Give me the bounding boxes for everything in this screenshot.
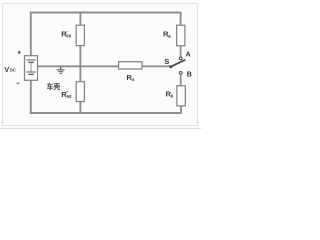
svg-text:V: V <box>4 65 9 74</box>
label R''50 <box>61 90 72 99</box>
label R'50 <box>61 30 72 39</box>
wire middle branch upper lead (top wire to R'50) <box>79 12 81 26</box>
resistor R'50 <box>76 25 84 45</box>
wire R6 bottom lead <box>180 106 182 114</box>
svg-text:50: 50 <box>66 34 71 39</box>
label R6 <box>166 89 174 98</box>
label S <box>164 57 169 66</box>
label R5 <box>163 29 171 39</box>
switch contact B <box>179 72 182 75</box>
resistor R5 <box>177 25 185 46</box>
svg-text:车壳: 车壳 <box>47 82 61 91</box>
svg-text:S: S <box>164 57 169 66</box>
label R4 <box>126 73 134 82</box>
battery VDC <box>25 56 38 81</box>
switch S pivot <box>169 65 172 68</box>
ground (chassis) <box>57 66 65 73</box>
battery minus sign <box>17 82 20 84</box>
wire middle branch lower lead (R''50 to bottom wire) <box>79 101 81 113</box>
wire left lower <box>30 80 32 113</box>
svg-text:B: B <box>187 71 192 78</box>
svg-text:A: A <box>186 52 191 59</box>
wire bottom <box>30 112 182 114</box>
svg-text:DC: DC <box>10 68 16 73</box>
battery plus sign <box>18 51 21 54</box>
resistor R6 <box>177 86 185 106</box>
label VDC <box>4 65 16 74</box>
wire contact B to R6 <box>180 74 182 85</box>
wire left upper <box>30 12 32 56</box>
label chassis (che ke) <box>47 82 61 91</box>
wire middle horizontal (battery tap to switch pivot) <box>38 65 170 67</box>
resistor R4 <box>119 62 142 69</box>
svg-text:50: 50 <box>67 94 72 99</box>
wire top <box>30 12 182 14</box>
label A <box>186 52 191 59</box>
label B <box>187 71 192 78</box>
switch S lever <box>171 60 185 67</box>
wire right top (top wire to R5) <box>180 12 182 26</box>
wire R5 bottom lead to contact A <box>180 46 182 57</box>
wire middle branch center lead (R'50 through middle wire to R''50) <box>79 46 81 82</box>
resistor R''50 <box>76 82 84 102</box>
switch contact A <box>179 57 182 60</box>
